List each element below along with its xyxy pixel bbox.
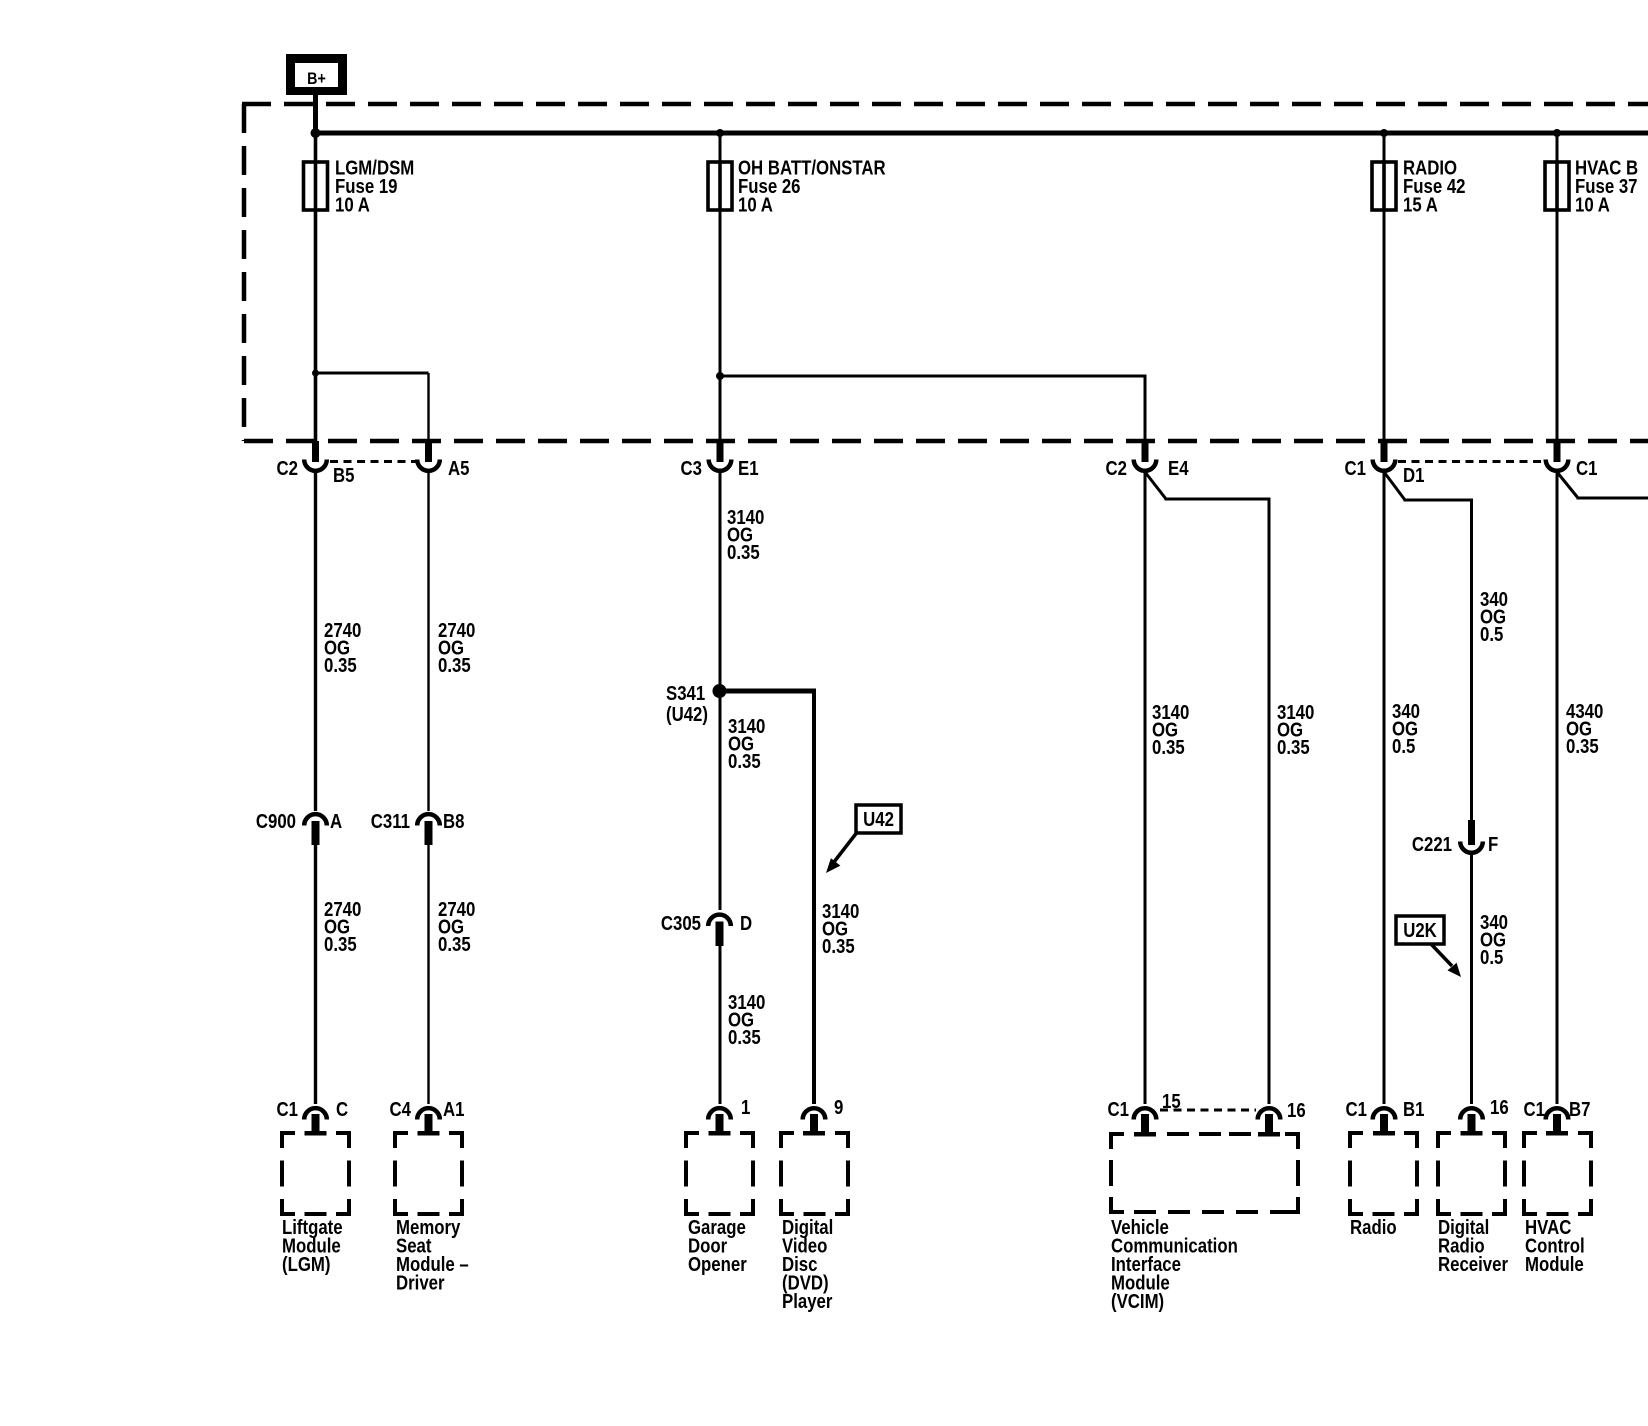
connector digital radio receiver pin 16 (1460, 1108, 1483, 1119)
svg-text:B1: B1 (1403, 1098, 1424, 1121)
svg-text:0.5: 0.5 (1392, 735, 1415, 758)
connector HVAC C1 pin B7 (1546, 1108, 1569, 1119)
svg-text:E1: E1 (738, 457, 759, 480)
svg-text:B5: B5 (333, 464, 354, 487)
junction branch to E4 (716, 372, 724, 380)
connector C2 pin A5 (425, 441, 432, 462)
svg-text:S341: S341 (666, 682, 705, 705)
callout U2K box (1396, 916, 1444, 944)
junction bus / fuse 26 (716, 129, 724, 137)
svg-text:B7: B7 (1569, 1098, 1590, 1121)
dashed link C2 B5 to A5 (330, 460, 416, 463)
svg-text:B+: B+ (307, 70, 326, 88)
connector C311 pin B8 (417, 814, 440, 825)
connector C1 HVAC pin (1554, 441, 1561, 462)
svg-text:B8: B8 (443, 810, 464, 833)
wire fuse 37 to connector C1 (1556, 210, 1559, 441)
connector LGM C1 pin C (304, 1108, 327, 1119)
junction branch to A5 (312, 370, 319, 377)
svg-text:C2: C2 (1106, 457, 1127, 480)
svg-text:Receiver: Receiver (1438, 1253, 1508, 1276)
svg-text:C1: C1 (1576, 457, 1597, 480)
svg-text:0.35: 0.35 (1566, 735, 1599, 758)
connector C221 pin F (1468, 820, 1475, 845)
fuse block dashed border top (242, 102, 1648, 107)
svg-text:C4: C4 (390, 1098, 412, 1121)
module box VCIM (1111, 1134, 1298, 1212)
diagonal branch from HVAC C1 (1557, 472, 1578, 498)
svg-text:U2K: U2K (1403, 919, 1437, 942)
svg-text:C305: C305 (661, 912, 701, 935)
svg-text:(U42): (U42) (666, 703, 708, 726)
wire 3140 OG E4 to VCIM 15 (1144, 472, 1147, 1104)
svg-text:C1: C1 (277, 1098, 298, 1121)
svg-text:0.5: 0.5 (1480, 623, 1503, 646)
fuse 37 HVAC B 10A (1545, 162, 1569, 210)
junction bus / B+ (311, 128, 321, 138)
svg-text:D: D (740, 912, 752, 935)
module box Garage Door Opener (686, 1133, 753, 1214)
wire branch to C2-E4 terminal (720, 375, 1147, 378)
wire 2740 OG A5 to C311 (427, 472, 429, 811)
wire 2740 OG C2-B5 to C900 (314, 472, 317, 811)
wire fuse 42 to connector C1-D1 (1383, 210, 1386, 441)
svg-text:16: 16 (1287, 1099, 1306, 1122)
svg-text:U42: U42 (863, 808, 894, 831)
splice S341 (U42) (713, 684, 727, 698)
wire 3140 OG S341 to C305 (719, 691, 722, 910)
svg-text:9: 9 (834, 1096, 843, 1119)
connector DVD player pin 9 (803, 1108, 826, 1119)
svg-text:0.35: 0.35 (1152, 736, 1185, 759)
fuse block dashed border bottom (244, 439, 1648, 444)
diagonal branch from E4 (1145, 472, 1166, 499)
svg-text:D1: D1 (1403, 464, 1424, 487)
wire bus to fuse 42 (1383, 133, 1386, 162)
svg-text:10 A: 10 A (1575, 193, 1610, 216)
callout U2K arrow (1431, 944, 1452, 966)
wire branch HVAC to right edge (1577, 497, 1648, 500)
svg-text:10 A: 10 A (738, 193, 773, 216)
svg-text:0.35: 0.35 (438, 654, 471, 677)
svg-text:0.35: 0.35 (822, 935, 855, 958)
svg-text:A1: A1 (443, 1098, 464, 1121)
svg-text:(LGM): (LGM) (282, 1253, 330, 1276)
junction bus / fuse 37 (1553, 129, 1561, 137)
svg-text:Player: Player (782, 1290, 832, 1313)
connector C2 pin B5 (312, 441, 319, 462)
connector VCIM pin 16 (1258, 1108, 1281, 1119)
module box HVAC Control Module (1524, 1133, 1591, 1214)
svg-text:0.35: 0.35 (438, 933, 471, 956)
svg-text:F: F (1488, 833, 1498, 856)
svg-text:E4: E4 (1168, 457, 1189, 480)
diagonal branch from D1 (1384, 472, 1405, 500)
svg-text:0.35: 0.35 (324, 933, 357, 956)
wire 340 OG C221 to digital radio receiver (1470, 854, 1473, 1104)
connector memory seat C4 pin A1 (417, 1108, 440, 1119)
wire 340 OG D1 to radio B1 (1383, 472, 1386, 1104)
wire bus to fuse 37 (1556, 133, 1559, 162)
svg-text:0.35: 0.35 (728, 750, 761, 773)
svg-text:C1: C1 (1346, 1098, 1367, 1121)
svg-text:C: C (336, 1098, 348, 1121)
svg-text:A: A (330, 810, 342, 833)
wire bus to fuse 19 (314, 133, 318, 162)
connector garage door opener pin 1 (708, 1108, 731, 1119)
svg-text:0.35: 0.35 (1277, 736, 1310, 759)
module box Liftgate Module (LGM) (282, 1133, 349, 1214)
fuse 19 LGM/DSM 10A (304, 162, 328, 210)
svg-text:Radio: Radio (1350, 1216, 1397, 1239)
wire splice branch S341 to DVD player (720, 689, 817, 694)
callout U42 arrow (834, 831, 858, 862)
connector C305 pin D (708, 915, 731, 926)
svg-text:C221: C221 (1412, 833, 1452, 856)
connector C1 pin D1 (1381, 441, 1388, 462)
connector C2 pin E4 (1142, 441, 1149, 462)
svg-text:1: 1 (741, 1096, 750, 1119)
svg-text:(VCIM): (VCIM) (1111, 1290, 1164, 1313)
svg-text:Driver: Driver (396, 1271, 445, 1294)
wire fuse 26 to connector C3-E1 (719, 210, 722, 441)
fuse 42 RADIO 15A (1372, 162, 1396, 210)
wire 3140 OG C305 to garage door opener (719, 946, 722, 1104)
svg-text:15 A: 15 A (1403, 193, 1438, 216)
fuse 26 OH BATT/ONSTAR 10A (708, 162, 732, 210)
connector C3 pin E1 (717, 441, 724, 462)
wire 3140 OG E1 to S341 (719, 472, 722, 691)
junction bus / fuse 42 (1380, 129, 1388, 137)
connector VCIM C1 pin 15 (1134, 1108, 1157, 1119)
wire 4340 OG C1 to HVAC B7 (1556, 472, 1559, 1104)
svg-text:Opener: Opener (688, 1253, 747, 1276)
svg-text:16: 16 (1490, 1096, 1509, 1119)
module box Memory Seat Module Driver (395, 1133, 462, 1214)
fuse block dashed border left (242, 104, 247, 441)
svg-text:C1: C1 (1524, 1098, 1545, 1121)
wire branch D1 to C221 (1404, 499, 1474, 502)
wire branch E4 to VCIM 16 (1165, 498, 1271, 501)
svg-text:C900: C900 (256, 810, 296, 833)
svg-text:0.35: 0.35 (727, 541, 760, 564)
svg-text:10 A: 10 A (335, 193, 370, 216)
connector C900 pin A (304, 814, 327, 825)
wire branch to A5 terminal (316, 372, 429, 375)
wire 2740 OG C311 to memory seat module (427, 845, 429, 1104)
svg-text:C311: C311 (371, 810, 410, 833)
svg-text:0.35: 0.35 (324, 654, 357, 677)
callout U42 box (856, 805, 901, 833)
wire bus to fuse 26 (719, 133, 722, 162)
svg-text:C1: C1 (1108, 1098, 1129, 1121)
svg-text:C2: C2 (277, 457, 298, 480)
svg-text:C3: C3 (681, 457, 702, 480)
node B+ battery feed box (286, 54, 347, 95)
wire 2740 OG C900 to LGM (314, 845, 317, 1104)
svg-text:0.35: 0.35 (728, 1026, 761, 1049)
module box Radio (1350, 1133, 1417, 1214)
wire B+ feed to bus (313, 95, 318, 133)
svg-text:Module: Module (1525, 1253, 1584, 1276)
module box DVD Player (781, 1133, 848, 1214)
wire fuse 19 to connector C2-B5 (314, 210, 318, 441)
svg-text:A5: A5 (448, 457, 469, 480)
svg-text:C1: C1 (1345, 457, 1366, 480)
dashed link VCIM 15 to 16 (1160, 1109, 1256, 1112)
wire battery bus bar (312, 131, 1648, 136)
svg-text:0.5: 0.5 (1480, 946, 1503, 969)
module box Digital Radio Receiver (1438, 1133, 1505, 1214)
connector radio C1 pin B1 (1373, 1108, 1396, 1119)
dashed link D1 to HVAC C1 (1398, 460, 1545, 463)
